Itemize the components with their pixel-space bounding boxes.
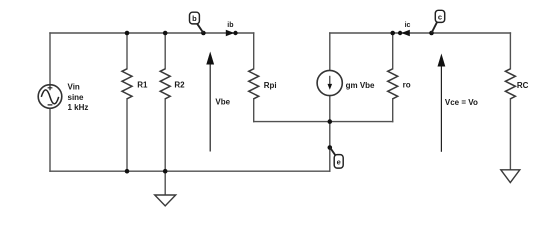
svg-text:Vin: Vin: [68, 83, 80, 92]
svg-text:sine: sine: [68, 93, 85, 102]
svg-text:RC: RC: [517, 81, 529, 90]
svg-text:R2: R2: [174, 81, 185, 90]
svg-text:Rpi: Rpi: [264, 81, 277, 90]
svg-text:c: c: [438, 12, 442, 21]
svg-text:b: b: [192, 14, 197, 23]
svg-text:gm Vbe: gm Vbe: [346, 81, 375, 90]
svg-text:Vce = Vo: Vce = Vo: [445, 98, 478, 107]
svg-text:1 kHz: 1 kHz: [68, 103, 89, 112]
svg-text:ro: ro: [403, 81, 411, 90]
svg-text:ib: ib: [227, 22, 233, 29]
svg-text:Vbe: Vbe: [215, 97, 230, 106]
svg-text:R1: R1: [137, 81, 148, 90]
svg-text:e: e: [337, 158, 341, 167]
svg-text:ic: ic: [405, 22, 411, 29]
